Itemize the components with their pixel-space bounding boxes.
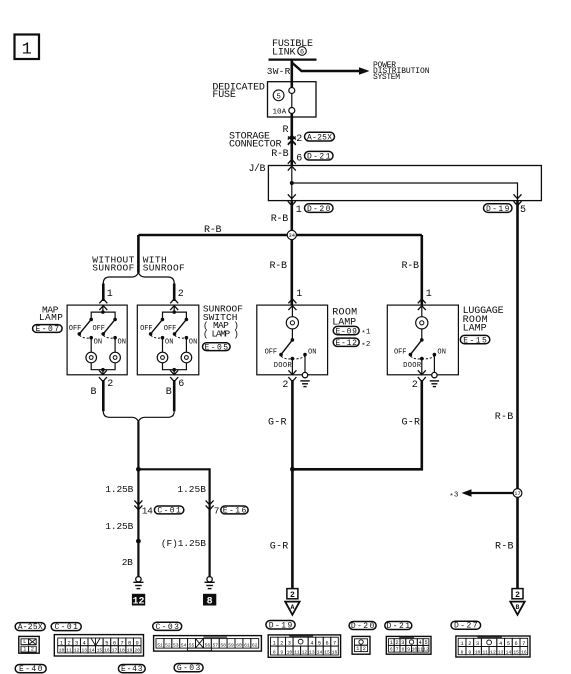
svg-text:(F)1.25B: (F)1.25B — [161, 538, 206, 549]
svg-text:14: 14 — [142, 506, 153, 517]
connector ref E-07 — [33, 325, 63, 335]
svg-text:10: 10 — [59, 648, 65, 654]
svg-text:3W-R: 3W-R — [267, 66, 291, 77]
svg-text:R: R — [283, 125, 289, 136]
svg-text:R-B: R-B — [402, 261, 420, 272]
map lamp exit chevrons — [99, 370, 107, 381]
connector ref E-43 label — [118, 665, 145, 674]
svg-text:2: 2 — [515, 591, 520, 600]
wire J/B to bottom R-B right — [516, 201, 519, 588]
svg-text:2: 2 — [107, 379, 113, 390]
junction dot B wires — [136, 467, 141, 472]
svg-text:20: 20 — [134, 648, 140, 654]
J/B entry chevrons — [288, 159, 296, 170]
fusible link bar — [269, 58, 317, 60]
svg-text:D-21: D-21 — [307, 153, 331, 162]
svg-text:OFF: OFF — [93, 325, 106, 333]
svg-text:D-21: D-21 — [387, 622, 411, 631]
svg-text:16: 16 — [521, 649, 527, 655]
connector D-20 pin layout — [352, 636, 370, 654]
svg-text:C-03: C-03 — [155, 623, 179, 632]
svg-text:12: 12 — [490, 649, 496, 655]
svg-text:LAMP: LAMP — [39, 312, 63, 323]
luggage room lamp internals — [394, 305, 446, 375]
svg-text:L: L — [23, 638, 26, 645]
svg-text:2: 2 — [363, 645, 366, 652]
wire branch to power distribution — [292, 63, 360, 72]
svg-text:D-20: D-20 — [351, 622, 375, 631]
svg-text:R-B: R-B — [495, 412, 514, 423]
svg-text:R-B: R-B — [204, 225, 222, 236]
terminal box 2 right — [512, 589, 523, 600]
svg-text:C-01: C-01 — [157, 507, 181, 516]
svg-text:8: 8 — [207, 597, 213, 608]
arrow to *3 — [462, 489, 514, 496]
svg-text:52: 52 — [165, 643, 171, 649]
connector ref G-03 label — [174, 664, 203, 674]
svg-text:6: 6 — [296, 154, 302, 165]
connector ref A-25X — [305, 132, 335, 142]
connector ref C-03 label — [153, 622, 182, 632]
svg-text:62: 62 — [252, 643, 258, 649]
J/B internal junction — [290, 181, 294, 185]
svg-text:19: 19 — [127, 648, 133, 654]
inline connector chevrons C-01 — [134, 500, 142, 509]
with sunroof label — [143, 254, 185, 273]
svg-text:11: 11 — [66, 648, 72, 654]
connector ref D-21 label — [385, 622, 412, 631]
svg-text:6: 6 — [300, 49, 304, 57]
dedicated fuse label — [212, 83, 265, 102]
map lamp internals — [69, 305, 126, 375]
svg-text:C-01: C-01 — [54, 623, 78, 632]
svg-text:D-19: D-19 — [269, 621, 293, 630]
wire room lamp G-R — [291, 380, 294, 588]
svg-text:A-25X: A-25X — [307, 134, 332, 143]
connector C-03 pin layout — [154, 636, 262, 652]
svg-text:R-B: R-B — [495, 541, 514, 552]
wire luggage lamp G-R — [292, 380, 421, 469]
dedicated fuse box — [268, 82, 317, 117]
svg-text:B: B — [516, 604, 520, 611]
connector ref D-21 — [305, 151, 334, 161]
svg-text:FUSE: FUSE — [212, 90, 236, 101]
svg-text:17: 17 — [514, 491, 520, 497]
luggage room lamp box E-15 — [387, 305, 458, 375]
connector ref C-01 inline — [154, 506, 183, 516]
sunroof switch box E-05 — [137, 305, 199, 375]
fuse terminal bottom — [289, 108, 295, 114]
sunroof switch internals — [140, 305, 197, 375]
svg-text:D-19: D-19 — [486, 205, 510, 214]
J/B exit chevrons right — [514, 194, 522, 205]
svg-text:LAMP: LAMP — [463, 323, 487, 334]
svg-text:10: 10 — [287, 650, 293, 656]
svg-text:1: 1 — [296, 205, 302, 216]
svg-text:ON: ON — [165, 339, 174, 347]
svg-text:G-R: G-R — [268, 417, 287, 428]
room lamp ground — [300, 372, 309, 386]
svg-text:9: 9 — [407, 647, 410, 653]
svg-text:2: 2 — [31, 646, 34, 653]
svg-text:ON: ON — [118, 339, 127, 347]
bus wire horizontal R-B — [138, 234, 421, 237]
luggage lamp exit chevrons — [418, 370, 426, 381]
svg-text:8: 8 — [461, 649, 464, 655]
svg-text:G-03: G-03 — [177, 664, 201, 673]
svg-text:ON: ON — [308, 349, 317, 357]
svg-text:12: 12 — [132, 597, 144, 608]
luggage lamp entry chevrons — [418, 299, 426, 310]
svg-text:7: 7 — [396, 647, 399, 653]
J/B internal wire vertical — [291, 166, 293, 201]
svg-text:9: 9 — [468, 649, 471, 655]
svg-text:13: 13 — [309, 650, 315, 656]
wire junction to E-16 branch — [138, 469, 209, 577]
svg-text:8: 8 — [401, 647, 404, 653]
power distribution system label — [373, 61, 430, 82]
svg-text:1.25B: 1.25B — [105, 521, 133, 532]
svg-text:8: 8 — [273, 650, 276, 656]
svg-text:1: 1 — [296, 289, 302, 300]
ground ref box 8 — [203, 594, 216, 608]
svg-text:15: 15 — [97, 648, 103, 654]
svg-text:2B: 2B — [122, 557, 133, 568]
svg-text:A: A — [290, 604, 294, 611]
svg-text:60: 60 — [236, 643, 242, 649]
ground ref box 12 — [132, 594, 145, 608]
svg-text:OFF: OFF — [394, 349, 407, 357]
svg-text:LINK: LINK — [272, 48, 296, 59]
svg-text:SUNROOF: SUNROOF — [143, 262, 185, 273]
connector C-01 pin layout — [54, 635, 143, 656]
svg-text:B: B — [91, 387, 97, 398]
svg-text:10: 10 — [475, 649, 481, 655]
svg-text:1.25B: 1.25B — [177, 484, 206, 495]
connector ref E-16 — [221, 506, 248, 516]
map lamp box E-07 — [67, 305, 127, 375]
svg-text:OFF: OFF — [69, 325, 82, 333]
svg-text:E-43: E-43 — [121, 665, 143, 674]
svg-text:1: 1 — [107, 289, 113, 300]
svg-text:SUNROOF: SUNROOF — [92, 262, 134, 273]
page connector triangle A — [285, 602, 299, 615]
terminal box 2 center — [287, 589, 298, 600]
connector D-19 pin layout — [268, 635, 340, 657]
svg-text:5: 5 — [520, 205, 526, 216]
connector ref E-40 label — [15, 665, 46, 674]
junction dot G-R — [290, 467, 295, 472]
storage connector symbol — [288, 135, 296, 145]
svg-text:9: 9 — [280, 650, 283, 656]
wire map lamp to join brace — [102, 380, 105, 411]
J/B internal wire horizontal — [292, 183, 518, 201]
svg-text:ON: ON — [437, 349, 446, 357]
svg-text:14: 14 — [317, 650, 323, 656]
arrowhead power distribution — [359, 67, 370, 75]
svg-text:53: 53 — [173, 643, 179, 649]
fusible link circled 6 — [298, 47, 307, 57]
wire J/B to room lamp R-B — [290, 201, 293, 306]
svg-text:57: 57 — [212, 643, 218, 649]
connector ref D-27 label — [451, 621, 481, 630]
wire bus to sunroof brace — [137, 235, 140, 273]
connector ref E-05 — [203, 343, 231, 353]
svg-text:15: 15 — [324, 650, 330, 656]
wire fusible link to fuse — [290, 60, 293, 88]
J/B exit chevrons left — [288, 194, 296, 205]
connector ref E-15 — [460, 335, 490, 345]
svg-text:14: 14 — [506, 649, 512, 655]
svg-text:R-B: R-B — [271, 214, 289, 225]
svg-text:OFF: OFF — [140, 325, 153, 333]
connector D-27 pin layout — [456, 636, 530, 657]
connector ref D-20 label — [349, 622, 376, 631]
svg-text:59: 59 — [228, 643, 234, 649]
svg-text:D-20: D-20 — [307, 205, 331, 214]
svg-text:E-40: E-40 — [19, 665, 43, 674]
room lamp internals — [265, 305, 317, 375]
junction circle 34 — [287, 230, 296, 239]
svg-text:51: 51 — [157, 643, 163, 649]
connector ref D-20 — [305, 204, 334, 214]
connector ref D-19 top — [484, 204, 513, 214]
svg-text:12: 12 — [302, 650, 308, 656]
svg-text:D-27: D-27 — [454, 622, 478, 631]
fuse circled 5 — [273, 90, 284, 101]
room lamp box E-09 — [257, 305, 328, 375]
sunroof switch entry chevrons — [170, 299, 178, 310]
svg-text:R-B: R-B — [270, 261, 288, 272]
sunroof switch label — [203, 304, 243, 340]
svg-text:61: 61 — [244, 643, 250, 649]
junction dot ground wire — [136, 539, 141, 544]
svg-text:ON: ON — [94, 339, 103, 347]
connector ref A-25X label — [15, 623, 45, 632]
svg-text:6: 6 — [390, 647, 393, 653]
svg-text:1.25B: 1.25B — [105, 484, 133, 495]
svg-text:J/B: J/B — [249, 163, 266, 175]
svg-text:A-25X: A-25X — [18, 623, 43, 632]
page connector triangle B — [510, 602, 524, 615]
room lamp entry chevrons — [288, 299, 296, 310]
svg-text:( LAMP ): ( LAMP ) — [203, 329, 239, 340]
svg-text:E-12: E-12 — [335, 339, 357, 348]
svg-text:13: 13 — [498, 649, 504, 655]
room lamp label — [332, 308, 357, 329]
svg-text:10A: 10A — [273, 108, 287, 116]
svg-text:18: 18 — [119, 648, 125, 654]
svg-text:OFF: OFF — [265, 349, 278, 357]
svg-text:7: 7 — [214, 506, 220, 517]
svg-text:6: 6 — [178, 379, 184, 390]
svg-text:2: 2 — [290, 591, 295, 600]
svg-text:OFF: OFF — [164, 325, 177, 333]
svg-text:17: 17 — [112, 648, 118, 654]
svg-text:2: 2 — [178, 289, 184, 300]
svg-text:DOOR: DOOR — [274, 362, 293, 370]
svg-text:E-15: E-15 — [463, 336, 487, 345]
svg-text:B: B — [166, 387, 172, 398]
svg-text:2: 2 — [412, 380, 418, 391]
svg-text:R-B: R-B — [271, 149, 289, 160]
storage connector label — [229, 132, 282, 151]
join brace — [103, 411, 174, 421]
wire fuse to J/B — [290, 114, 293, 166]
svg-text:14: 14 — [89, 648, 95, 654]
svg-text:G-R: G-R — [270, 541, 289, 552]
svg-text:15: 15 — [513, 649, 519, 655]
svg-text:E-05: E-05 — [205, 343, 229, 352]
svg-text:12: 12 — [423, 647, 429, 653]
junction circle 17 — [513, 489, 522, 498]
svg-text:SYSTEM: SYSTEM — [373, 73, 400, 82]
svg-text:2: 2 — [296, 134, 302, 145]
svg-text:DOOR: DOOR — [403, 362, 422, 370]
connector ref E-09 — [333, 326, 359, 336]
wire join brace to ground junction — [137, 422, 139, 578]
svg-text:ON: ON — [189, 339, 198, 347]
J/B box — [268, 166, 541, 201]
svg-text:5: 5 — [276, 93, 281, 101]
svg-text:12: 12 — [74, 648, 80, 654]
fuse element wire — [291, 94, 293, 108]
page number box 1 — [15, 35, 40, 60]
svg-text:11: 11 — [294, 650, 300, 656]
sunroof switch exit chevrons — [170, 370, 178, 381]
luggage room lamp label — [463, 306, 504, 334]
room lamp exit chevrons — [288, 370, 296, 381]
wire sunroof switch to join brace — [173, 380, 176, 411]
wire brace to map lamp — [102, 284, 105, 302]
svg-text:G-R: G-R — [402, 417, 421, 428]
svg-text:E-09: E-09 — [335, 327, 357, 336]
svg-text:58: 58 — [220, 643, 226, 649]
fusible link label — [272, 39, 313, 59]
svg-text:16: 16 — [332, 650, 338, 656]
map lamp entry chevrons — [99, 299, 107, 310]
split brace — [103, 273, 174, 284]
fuse terminal top — [289, 88, 295, 94]
luggage lamp ground — [430, 372, 439, 386]
svg-text:13: 13 — [81, 648, 87, 654]
ground right — [205, 577, 215, 589]
svg-text:54: 54 — [181, 643, 187, 649]
connector ref D-19 label — [266, 621, 295, 631]
svg-text:16: 16 — [104, 648, 110, 654]
svg-text:2: 2 — [282, 380, 288, 391]
connector D-21 pin layout — [386, 636, 431, 654]
svg-text:E-07: E-07 — [36, 325, 60, 334]
ground left — [133, 577, 143, 589]
connector A-25X pin layout — [19, 636, 39, 653]
svg-text:1: 1 — [22, 41, 32, 60]
svg-text:11: 11 — [482, 649, 488, 655]
svg-text:1: 1 — [426, 289, 432, 300]
wire brace to sunroof switch — [173, 284, 176, 302]
wire bus to luggage room lamp — [420, 235, 423, 305]
svg-text:E-16: E-16 — [223, 507, 247, 516]
svg-text:34: 34 — [289, 233, 295, 239]
map lamp label — [39, 305, 63, 324]
connector ref E-12 — [333, 338, 359, 348]
connector ref C-01 label — [51, 623, 81, 632]
without sunroof label — [92, 254, 134, 273]
inline connector chevrons E-16 — [206, 500, 214, 509]
